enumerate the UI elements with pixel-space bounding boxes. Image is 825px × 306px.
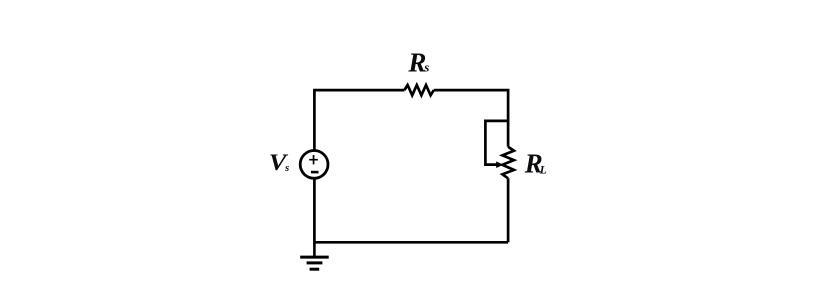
voltage source V_s circle	[300, 151, 328, 179]
ground bar 3	[310, 268, 320, 271]
wire: bottom horizontal	[314, 241, 508, 244]
svg-text:s: s	[423, 59, 429, 74]
svg-text:L: L	[539, 164, 547, 176]
ground stem	[313, 242, 316, 256]
rheostat wiper arrowhead	[496, 161, 503, 168]
plus sign inside source	[309, 155, 318, 164]
wire: right vertical below RL to bottom corner	[507, 178, 510, 242]
ground bar 2	[307, 261, 323, 264]
wire: voltage source bottom lead	[313, 179, 316, 244]
rheostat wiper loop wire	[485, 121, 508, 165]
wire: top-right segment + right vertical down to RL	[434, 90, 508, 147]
label V_s	[269, 150, 289, 175]
svg-text:s: s	[284, 163, 289, 174]
rheostat R_L zigzag	[502, 147, 514, 179]
resistor R_s zigzag	[404, 85, 433, 95]
minus sign inside source	[311, 171, 319, 174]
wire: left vertical + top-left segment to Rs	[314, 90, 404, 150]
ground bar 1	[300, 256, 329, 259]
